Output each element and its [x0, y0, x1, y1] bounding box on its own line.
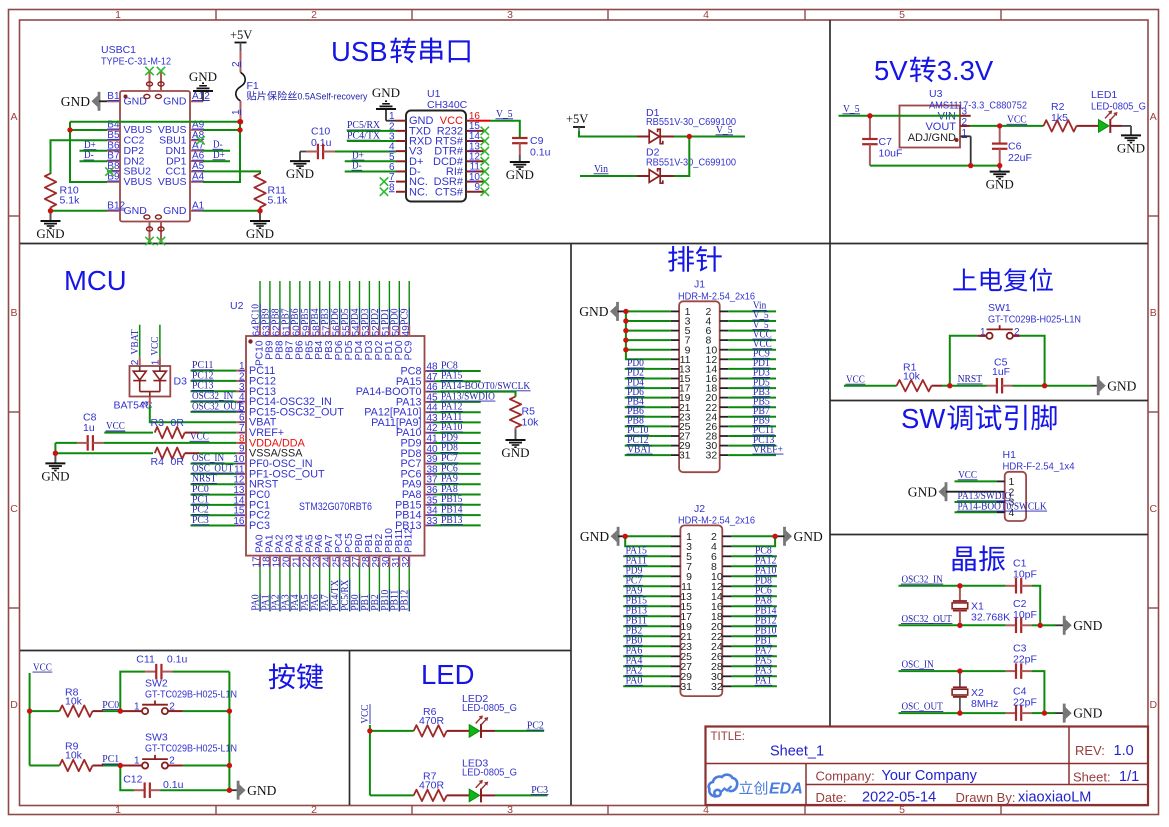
- svg-text:Company:: Company:: [816, 769, 875, 784]
- wire+label J1 left PC12: [625, 445, 671, 447]
- svg-text:A5: A5: [192, 161, 205, 172]
- wire VCC pin16 to C9: [476, 120, 490, 122]
- wire SW1 pin1: [977, 335, 986, 337]
- svg-text:3: 3: [507, 804, 513, 816]
- wire SW2 pin2: [168, 710, 183, 712]
- svg-text:22pF: 22pF: [1013, 697, 1037, 709]
- svg-text:B9: B9: [107, 172, 120, 183]
- svg-text:GND: GND: [1117, 140, 1145, 155]
- section title power-on reset: [953, 268, 976, 290]
- capacitor C6: [999, 126, 1001, 144]
- wire SW3 pin2: [168, 765, 183, 767]
- wire+label J2 left PA2: [623, 675, 671, 677]
- svg-text:F1: F1: [247, 80, 259, 92]
- svg-text:OSC_IN: OSC_IN: [902, 660, 934, 671]
- wire+label J2 left PA0: [623, 685, 671, 687]
- svg-text:A6: A6: [192, 151, 205, 162]
- svg-text:10k: 10k: [65, 750, 83, 762]
- wire+label J1 right PB7: [728, 416, 776, 418]
- capacitor C4: [1006, 712, 1016, 714]
- ground at A12: [202, 91, 204, 101]
- wire+label J2 right PB10: [732, 635, 777, 637]
- wire A1 row: [203, 210, 260, 212]
- wire VDDA row: [55, 442, 77, 444]
- svg-text:GND: GND: [1073, 618, 1102, 633]
- wire C10 to ground: [300, 151, 306, 153]
- USBC1 shield pins bottom: [149, 222, 151, 242]
- wire DP1: [203, 160, 230, 162]
- svg-text:LED-0805_G: LED-0805_G: [462, 702, 517, 714]
- wire R11 to A1 row: [259, 207, 261, 210]
- wire C11 to right bus: [173, 671, 230, 673]
- svg-text:SW: SW: [901, 403, 945, 434]
- svg-text:10k: 10k: [522, 417, 540, 429]
- svg-text:RB551V-30_C699100: RB551V-30_C699100: [646, 157, 736, 169]
- ground flag at J2 right: [783, 527, 786, 546]
- ground at R5: [515, 430, 517, 441]
- D3 internal diodes: [139, 366, 141, 371]
- wire C4 to ground flag: [1032, 712, 1045, 714]
- resistor R11: [254, 173, 265, 207]
- wire+label J1 left PB8: [625, 425, 671, 427]
- svg-text:ADJ/GND: ADJ/GND: [908, 132, 956, 144]
- svg-text:470R: 470R: [419, 715, 445, 727]
- svg-text:1: 1: [115, 804, 121, 816]
- resistor R4: [155, 448, 185, 459]
- svg-text:3: 3: [507, 9, 513, 21]
- svg-text:VBUS: VBUS: [124, 176, 153, 188]
- wire+label J2 left PA9: [623, 595, 671, 597]
- wire+label J2 right PD8: [732, 585, 777, 587]
- svg-text:470R: 470R: [419, 780, 445, 792]
- capacitor C3: [1006, 670, 1016, 672]
- wire VBUS left vertical: [70, 122, 107, 182]
- wire V_5 to VIN: [839, 115, 961, 117]
- svg-text:LED: LED: [421, 659, 475, 690]
- wire+label J1 left PD4: [625, 387, 671, 389]
- wire H1 pin1: [955, 480, 997, 482]
- wire J1 left pin row 5: [626, 349, 671, 351]
- section title pin headers: [668, 246, 694, 272]
- wire+label J2 left PB0: [623, 645, 671, 647]
- wire+label J1 left PD0: [625, 368, 671, 370]
- no-connect A8: [196, 136, 204, 144]
- switch SW3: [142, 762, 148, 768]
- wire+label J2 right PA5: [732, 665, 777, 667]
- capacitor C2: [1006, 624, 1016, 626]
- capacitor C1: [1006, 585, 1016, 587]
- wire+label J1 right V_5: [728, 330, 776, 332]
- svg-text:D+: D+: [213, 149, 225, 161]
- svg-text:MCU: MCU: [64, 265, 127, 296]
- wire+label J2 right PC6: [732, 595, 777, 597]
- wire R5 to ground: [515, 428, 517, 430]
- wire+label J2 left PA15: [623, 555, 671, 557]
- wire R2 to LED1: [1077, 125, 1099, 127]
- LED LED2: [469, 725, 479, 738]
- wire H1 pin3: [955, 501, 997, 503]
- svg-text:C7: C7: [879, 136, 893, 148]
- ground flag at USBC1 B1: [98, 92, 101, 111]
- wire J1 left pin row 1: [626, 310, 671, 312]
- wire R8 to PC0 node: [93, 710, 104, 712]
- svg-text:Sheet:: Sheet:: [1073, 770, 1111, 785]
- wire+label J1 right Vin: [728, 310, 776, 312]
- svg-text:1/1: 1/1: [1119, 769, 1139, 785]
- svg-text:GND: GND: [163, 205, 187, 217]
- wire R10 to GND row: [50, 207, 52, 210]
- svg-text:GND: GND: [246, 226, 274, 241]
- wire VCC to D3 pin1: [159, 325, 161, 358]
- LED LED3: [469, 789, 479, 802]
- svg-text:HDR-F-2.54_1x4: HDR-F-2.54_1x4: [1003, 461, 1075, 473]
- wire+label J2 right PB14: [732, 615, 777, 617]
- wire+label J1 right PB9: [728, 425, 776, 427]
- wire J1 left pin row 2: [626, 320, 671, 322]
- svg-text:C11: C11: [136, 654, 155, 666]
- svg-text:GND: GND: [61, 94, 90, 109]
- U2 right pins 48-33: [425, 370, 435, 372]
- wire VCC vertical at LEDs: [369, 725, 371, 795]
- svg-text:5: 5: [899, 9, 905, 21]
- H1 pins: [997, 480, 1005, 482]
- svg-text:1k5: 1k5: [1051, 112, 1068, 124]
- svg-text:GND: GND: [372, 85, 400, 100]
- svg-text:PC9: PC9: [404, 340, 415, 360]
- IC U2 body: [246, 336, 425, 556]
- svg-text:B: B: [10, 307, 17, 319]
- USBC1 left pins B1,B4-B9,B12: [107, 100, 120, 102]
- wire SW2 pin1: [120, 710, 142, 712]
- wire U1 D+: [345, 160, 396, 162]
- wire+label J2 right PB12: [732, 625, 777, 627]
- svg-text:4: 4: [703, 9, 709, 21]
- svg-text:2: 2: [239, 371, 245, 382]
- svg-text:USBC1: USBC1: [101, 44, 136, 56]
- svg-text:C: C: [1150, 503, 1158, 515]
- LCEDA logo text: [739, 781, 752, 794]
- svg-text:Vin: Vin: [594, 163, 608, 175]
- svg-text:VCC: VCC: [1007, 114, 1027, 126]
- svg-text:5.1k: 5.1k: [268, 195, 289, 207]
- USBC1 right pins A12,A9-A4,A1: [190, 100, 203, 102]
- J2 pins and numbers: [671, 535, 680, 537]
- wire R3 to VREF+ pin7: [185, 432, 199, 434]
- svg-text:R4: R4: [151, 456, 165, 468]
- J1 pins and numbers: [671, 310, 679, 312]
- svg-text:C6: C6: [1008, 141, 1022, 153]
- ground flag at J1: [616, 302, 619, 321]
- svg-text:GND: GND: [1073, 706, 1102, 721]
- wire+label J1 right VCC: [728, 349, 776, 351]
- wire C5 to GND: [1013, 385, 1045, 387]
- svg-text:0.1u: 0.1u: [167, 654, 188, 666]
- wire J2 left GND: [618, 535, 625, 537]
- LED LED1: [1099, 120, 1109, 133]
- IC U1 CH340C body: [406, 111, 466, 202]
- wire D3 pin3 to VBAT pin6: [149, 397, 151, 406]
- wire CC2 to R10: [51, 140, 108, 174]
- USBC1 shield pins top: [149, 71, 151, 91]
- wire+label J2 right PB1: [732, 645, 777, 647]
- crystal X2: [959, 671, 961, 687]
- svg-text:xiaoxiaoLM: xiaoxiaoLM: [1018, 790, 1091, 806]
- wire C8 left vertical: [54, 443, 56, 453]
- wire+label J1 right PB3: [728, 397, 776, 399]
- svg-text:D3: D3: [174, 376, 188, 388]
- svg-text:B7: B7: [107, 151, 120, 162]
- svg-text:A12: A12: [192, 91, 210, 102]
- svg-text:0.5ASelf-recovery: 0.5ASelf-recovery: [298, 92, 369, 102]
- svg-text:D: D: [1150, 699, 1158, 711]
- wire C10 to V3 pin: [335, 151, 396, 153]
- svg-text:A: A: [10, 111, 17, 123]
- wire+label J2 left PB13: [623, 615, 671, 617]
- capacitor C7: [869, 116, 871, 139]
- svg-text:TITLE:: TITLE:: [711, 731, 746, 743]
- ground at C10: [299, 160, 301, 162]
- wire D2 cathode: [660, 175, 674, 177]
- svg-text:LED-0805_G: LED-0805_G: [462, 767, 517, 779]
- capacitor C12: [134, 789, 145, 791]
- wire OSC_OUT: [899, 712, 1006, 714]
- no-connect B8: [105, 167, 113, 175]
- wire+label J1 left PD6: [625, 397, 671, 399]
- fuse F1 value label: [247, 91, 256, 100]
- ground at U1 pin1: [386, 120, 396, 122]
- svg-text:PC3: PC3: [249, 520, 270, 532]
- wire+label J2 right PA10: [732, 575, 777, 577]
- svg-text:HDR-M-2.54_2x16: HDR-M-2.54_2x16: [678, 514, 755, 526]
- svg-text:CH340C: CH340C: [427, 99, 468, 111]
- wire to R9: [30, 765, 60, 767]
- wire+label J2 right PC8: [732, 555, 777, 557]
- svg-text:GND: GND: [579, 304, 608, 319]
- wire to R7: [370, 794, 414, 796]
- wire R7 to LED3: [447, 794, 470, 796]
- ground at R10: [50, 211, 52, 221]
- wire OSC32_OUT: [899, 624, 1006, 626]
- wire R9 to PC1 node: [93, 765, 104, 767]
- wire+label J1 right V_5: [728, 320, 776, 322]
- svg-text:GND: GND: [986, 177, 1014, 192]
- capacitor C11: [145, 671, 156, 673]
- svg-text:A4: A4: [192, 172, 205, 183]
- wire+label J1 right PC9: [728, 358, 776, 360]
- wire VBAT to D3 pin2: [139, 325, 141, 358]
- svg-text:+5V: +5V: [230, 28, 252, 42]
- wire H1 pin4: [955, 511, 997, 513]
- wire TXD: [347, 130, 396, 132]
- svg-text:GND: GND: [189, 69, 217, 84]
- svg-text:31: 31: [679, 450, 691, 462]
- wire+label J1 right PD1: [728, 368, 776, 370]
- wire VBUS right vertical: [203, 122, 240, 182]
- ground flag at C5: [1097, 376, 1100, 395]
- svg-text:0R: 0R: [171, 417, 185, 429]
- svg-text:TYPE-C-31-M-12: TYPE-C-31-M-12: [101, 56, 171, 68]
- wire D1 cathode to V_5: [660, 136, 674, 138]
- U2 left pins 1-16: [236, 370, 246, 372]
- svg-text:VBUS: VBUS: [158, 176, 187, 188]
- svg-text:GND: GND: [506, 167, 534, 182]
- svg-text:B: B: [1150, 307, 1157, 319]
- ground flag at H1: [945, 482, 948, 501]
- svg-text:+5V: +5V: [566, 112, 588, 126]
- svg-text:32: 32: [711, 681, 723, 693]
- wire+label J1 right PC13: [728, 445, 776, 447]
- svg-text:22uF: 22uF: [1008, 152, 1032, 164]
- wire DN1: [203, 150, 230, 152]
- wire DP2: [80, 150, 108, 152]
- wire+label J1 left PD2: [625, 378, 671, 380]
- svg-text:CTS#: CTS#: [435, 186, 464, 198]
- resistor R1: [897, 380, 932, 391]
- svg-text:H1: H1: [1003, 449, 1017, 461]
- wire GND flag to B1: [99, 100, 107, 102]
- wire OSC_IN: [899, 670, 1006, 672]
- wire VOUT: [960, 125, 970, 127]
- switch SW2: [142, 708, 148, 714]
- wire Vin to D2: [580, 175, 637, 177]
- svg-text:SW1: SW1: [988, 302, 1011, 314]
- svg-text:V_5: V_5: [716, 124, 733, 136]
- svg-text:PC4/TX: PC4/TX: [347, 129, 380, 141]
- crystal X1: [959, 586, 961, 601]
- capacitor C5: [987, 385, 997, 387]
- wire C11 branch: [120, 672, 145, 712]
- svg-text:1uF: 1uF: [992, 366, 1010, 378]
- wire to R6: [370, 730, 414, 732]
- ground at C9: [519, 155, 521, 162]
- svg-text:49: 49: [401, 325, 412, 337]
- wire R6 to LED2: [447, 730, 470, 732]
- svg-text:GT-TC029B-H025-L1N: GT-TC029B-H025-L1N: [145, 688, 237, 700]
- wire C1 to C2 vertical: [1032, 586, 1041, 626]
- wire +5V to D1: [579, 131, 637, 137]
- svg-text:10k: 10k: [903, 370, 921, 382]
- wire LED1 to GND: [1111, 125, 1122, 127]
- svg-text:22pF: 22pF: [1013, 654, 1037, 666]
- svg-text:EDA: EDA: [769, 781, 803, 798]
- wire+label J2 left PB11: [623, 625, 671, 627]
- svg-text:10uF: 10uF: [879, 148, 903, 160]
- ground at VSSA: [54, 453, 56, 463]
- section title buttons: [269, 663, 295, 689]
- U2 bottom pins 17-32: [259, 556, 261, 567]
- svg-text:LED1: LED1: [1091, 89, 1117, 101]
- svg-text:C12: C12: [123, 773, 142, 785]
- title block border: [706, 727, 1149, 806]
- svg-text:GND: GND: [286, 166, 314, 181]
- wire C12 branch: [120, 766, 134, 791]
- U2 bottom pin wires: [259, 567, 261, 612]
- wire+label J2 right PA8: [732, 605, 777, 607]
- wire+label J1 left PB6: [625, 416, 671, 418]
- svg-text:Date:: Date:: [816, 790, 847, 805]
- wire J1 left pin row 3: [626, 330, 671, 332]
- wire U1 D-: [345, 170, 396, 172]
- svg-text:GND: GND: [908, 484, 937, 499]
- U2 top pin wires: [259, 281, 261, 326]
- connector J2 body: [680, 525, 722, 696]
- switch SW1: [986, 333, 992, 339]
- svg-text:0R: 0R: [171, 456, 185, 468]
- U1 right no-connect X pins 15-9: [476, 130, 485, 132]
- capacitor C9: [512, 137, 528, 139]
- wire+label J1 right PD3: [728, 378, 776, 380]
- svg-text:GT-TC029B-H025-L1N: GT-TC029B-H025-L1N: [145, 743, 237, 755]
- svg-text:5V: 5V: [874, 55, 908, 86]
- svg-text:C9: C9: [530, 135, 544, 147]
- ground at C6: [999, 166, 1001, 172]
- ground flag at C12: [237, 781, 240, 800]
- svg-text:1: 1: [231, 109, 242, 115]
- resistor R8: [60, 705, 93, 716]
- wire+label J1 right VREF+: [728, 454, 776, 456]
- wire+label J2 left PC7: [623, 585, 671, 587]
- ground at R11: [259, 211, 261, 221]
- svg-text:6: 6: [239, 413, 245, 424]
- svg-text:1.0: 1.0: [1114, 743, 1134, 759]
- wire+label J1 right PD5: [728, 387, 776, 389]
- connector USBC1 body: [120, 91, 190, 222]
- svg-text:V_5: V_5: [496, 108, 513, 120]
- wire VBUS B4-A9 row: [70, 129, 107, 131]
- svg-text:A1: A1: [192, 201, 205, 212]
- wire B12 row: [51, 210, 108, 212]
- resistor R10: [45, 173, 56, 207]
- wire CC1 to R11: [203, 171, 260, 174]
- wire R1 to NRST node: [932, 385, 942, 387]
- svg-text:C10: C10: [311, 126, 330, 138]
- svg-text:J1: J1: [694, 279, 705, 291]
- wire J1 left pin row 4: [626, 339, 671, 341]
- svg-text:Your Company: Your Company: [882, 768, 978, 784]
- U2 left row wires and net labels: [191, 370, 237, 372]
- svg-text:OSC_OUT: OSC_OUT: [902, 702, 944, 713]
- svg-text:1u: 1u: [83, 422, 95, 434]
- svg-text:5.1k: 5.1k: [60, 195, 81, 207]
- wire+label J2 right PA1: [732, 685, 777, 687]
- resistor R3: [155, 427, 185, 438]
- wire+label J2 left PA4: [623, 665, 671, 667]
- svg-text:0.1u: 0.1u: [530, 147, 551, 159]
- wire DN2: [80, 160, 108, 162]
- wire+label J1 right PC11: [728, 435, 776, 437]
- resistor R7: [414, 790, 447, 801]
- wire C2 to ground flag: [1032, 624, 1041, 626]
- svg-text:USB: USB: [331, 36, 388, 67]
- wire LED2 to PC2: [481, 730, 495, 732]
- wire C12 to GND node: [161, 789, 230, 791]
- svg-text:3.3V: 3.3V: [937, 55, 994, 86]
- wire+label J1 left PB4: [625, 406, 671, 408]
- svg-text:U3: U3: [929, 88, 943, 100]
- svg-text:NC.: NC.: [409, 186, 428, 198]
- svg-text:GT-TC029B-H025-L1N: GT-TC029B-H025-L1N: [988, 314, 1081, 326]
- ground flag at J2 left: [617, 527, 620, 546]
- wire ADJ to ground rail: [960, 135, 970, 137]
- wire+label J2 left PB2: [623, 635, 671, 637]
- ground flag at C4: [1063, 704, 1066, 723]
- svg-text:GND: GND: [501, 445, 529, 460]
- svg-text:GND: GND: [124, 205, 148, 217]
- svg-text:GND: GND: [580, 529, 609, 544]
- wire VCC to R1: [844, 385, 897, 387]
- U1 no-connect pins 7,8: [380, 177, 388, 185]
- wire VSSA row: [55, 452, 153, 454]
